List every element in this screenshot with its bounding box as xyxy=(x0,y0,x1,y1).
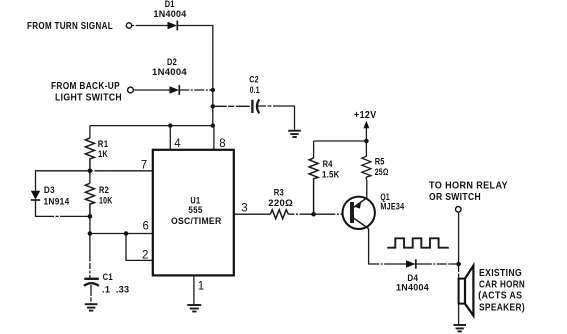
node: D2 junction on rail xyxy=(211,88,215,92)
wire: pin 3 output xyxy=(234,202,270,214)
svg-text:10K: 10K xyxy=(99,196,113,207)
svg-text:6: 6 xyxy=(143,221,149,233)
node: pin 2 branch junction xyxy=(124,231,129,236)
wire: D1 cathode right then down the input rail xyxy=(177,26,213,126)
wire: C2 right plate to ground corner xyxy=(258,106,295,130)
wire: pin 1 to ground xyxy=(194,275,204,304)
power: +12V arrow xyxy=(354,110,377,141)
svg-text:TO HORN RELAY: TO HORN RELAY xyxy=(429,180,508,191)
resistor R5 25ohm xyxy=(362,141,389,180)
resistor R4 1.5K xyxy=(309,141,340,214)
waveform: square wave symbol xyxy=(387,238,449,247)
wire: pin 8 stub xyxy=(214,126,226,150)
wire: rail to C2 left plate xyxy=(213,105,252,107)
wire: rail down to pin-6 row xyxy=(89,216,91,233)
svg-text:R4: R4 xyxy=(323,159,333,170)
svg-text:1K: 1K xyxy=(98,149,108,160)
node: R1/R2/D3/pin7 junction xyxy=(88,169,93,174)
diode D3 1N914 (shunt branch) xyxy=(31,171,90,217)
wire: C1 to ground xyxy=(90,285,92,304)
ground: C1 ground xyxy=(85,304,98,310)
node: C2 branch junction xyxy=(211,104,215,108)
node: FROM TURN SIGNAL input terminal xyxy=(27,21,132,32)
svg-text:CAR HORN: CAR HORN xyxy=(479,280,525,291)
svg-text:R5: R5 xyxy=(375,157,385,168)
svg-text:1N4004: 1N4004 xyxy=(396,283,429,294)
wire: pin 7 xyxy=(90,160,153,172)
svg-text:+12V: +12V xyxy=(354,110,377,121)
ground: C2 ground xyxy=(288,131,301,137)
svg-text:OSC/TIMER: OSC/TIMER xyxy=(171,216,222,227)
svg-text:7: 7 xyxy=(141,160,147,172)
svg-text:C2: C2 xyxy=(249,75,258,86)
svg-text:SPEAKER): SPEAKER) xyxy=(479,302,525,313)
diode D2 1N4004 xyxy=(152,57,187,95)
wire: D2 cathode to rail (dash-dot) xyxy=(179,89,211,91)
wire: pin 6 xyxy=(90,221,153,234)
node: pin 6 junction xyxy=(88,231,93,236)
svg-text:FROM TURN SIGNAL: FROM TURN SIGNAL xyxy=(27,21,113,32)
svg-text:4: 4 xyxy=(174,138,181,150)
resistor R1 1K xyxy=(85,126,108,171)
node: D4 / horn junction xyxy=(456,262,461,267)
wire: +12V rail horizontal xyxy=(314,140,367,142)
svg-text:MJE34: MJE34 xyxy=(380,202,404,213)
node: TO HORN RELAY OR SWITCH output terminal xyxy=(429,180,508,212)
svg-text:.1 .33: .1 .33 xyxy=(102,285,129,296)
node: rail corner junction to supply row xyxy=(211,123,215,127)
node: D3 return junction xyxy=(88,214,93,219)
diode D4 1N4004 xyxy=(396,259,429,293)
svg-text:D3: D3 xyxy=(44,185,55,196)
diode D1 1N4004 xyxy=(154,0,187,30)
resistor R2 10K xyxy=(85,171,112,217)
wire: R3 to Q1 base junction (dash-dot) xyxy=(288,213,350,215)
capacitor C2 0.1 xyxy=(249,75,260,114)
svg-text:1: 1 xyxy=(198,281,204,293)
wire: D4 cathode to horn junction xyxy=(416,263,459,265)
wire: turn signal terminal to D1 anode xyxy=(132,25,167,27)
speaker: existing car horn xyxy=(459,266,525,316)
wire: pin 4 stub xyxy=(170,126,181,150)
svg-text:FROM BACK-UP: FROM BACK-UP xyxy=(51,81,120,92)
svg-text:OR SWITCH: OR SWITCH xyxy=(429,192,481,203)
ground: pin 1 ground xyxy=(187,305,201,312)
wire: collector down and right to D4 xyxy=(369,229,406,264)
svg-text:1N914: 1N914 xyxy=(44,197,70,208)
resistor R3 220ohm xyxy=(268,188,293,219)
svg-text:8: 8 xyxy=(219,138,225,150)
svg-text:LIGHT SWITCH: LIGHT SWITCH xyxy=(55,93,122,104)
transistor Q1 MJE34 (PNP) xyxy=(343,192,405,229)
wire: junction down to speaker xyxy=(458,264,460,324)
wire: back-up terminal to D2 anode xyxy=(134,89,170,91)
svg-text:(ACTS AS: (ACTS AS xyxy=(478,290,522,301)
node: +12V / R5 junction xyxy=(364,139,369,144)
svg-text:EXISTING: EXISTING xyxy=(479,268,522,279)
wire: R5 to Q1 emitter xyxy=(366,180,368,198)
wire: pin 2 xyxy=(126,234,153,262)
svg-text:C1: C1 xyxy=(103,272,114,283)
svg-text:3: 3 xyxy=(241,202,247,214)
svg-text:220Ω: 220Ω xyxy=(268,198,293,209)
svg-text:1N4004: 1N4004 xyxy=(152,67,187,78)
wire: top supply rail from R1 to pin 8 column xyxy=(90,125,213,127)
svg-text:1.5K: 1.5K xyxy=(322,170,340,181)
svg-text:555: 555 xyxy=(188,205,203,216)
svg-text:R3: R3 xyxy=(274,188,284,199)
ground: speaker ground xyxy=(453,325,466,331)
svg-text:25Ω: 25Ω xyxy=(375,167,389,178)
node: pin 4 junction xyxy=(168,123,172,127)
wire: rail down to C1 xyxy=(89,234,91,279)
svg-text:R2: R2 xyxy=(99,185,109,196)
svg-text:2: 2 xyxy=(142,250,148,262)
node: R4 / base junction xyxy=(311,212,316,217)
node: FROM BACK-UP LIGHT SWITCH input terminal xyxy=(51,81,133,104)
wire: terminal down to D4 junction xyxy=(458,212,460,264)
svg-text:1N4004: 1N4004 xyxy=(154,9,187,20)
capacitor C1 .1 / .33 xyxy=(84,272,129,296)
IC U1 555 OSC/TIMER xyxy=(153,150,234,276)
svg-text:0.1: 0.1 xyxy=(250,85,260,96)
